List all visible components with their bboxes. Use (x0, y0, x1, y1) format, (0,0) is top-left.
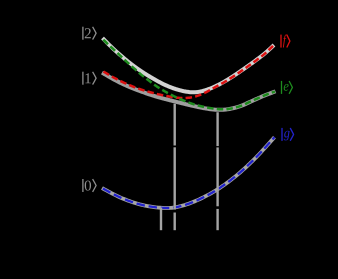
ground-state gray curve (|0〉 to |g〉) (102, 137, 275, 208)
vertical transition line V3 (160, 208, 162, 231)
vertical transition line V2 upper segment (216, 112, 218, 146)
label ket |0> (83, 179, 96, 192)
vertical transition line V1 upper segment (173, 104, 175, 146)
lower adiabatic gray curve (|1〉 to |e〉 branch) (102, 73, 276, 110)
label ket |2> (83, 27, 96, 40)
vertical transition line V2 lower segment (216, 209, 218, 230)
vertical transition line V1 middle segment (173, 147, 175, 209)
label ket |f> (281, 35, 290, 48)
label ket |1> (83, 72, 96, 85)
blue dashed curve |0〉 to |g〉 (102, 137, 275, 208)
green dashed diabatic curve |2〉 to |e〉 (103, 39, 275, 109)
red dashed diabatic curve |1〉 to |f〉 (102, 46, 273, 98)
vertical transition line V2 middle segment (216, 147, 218, 206)
label ket |e> (282, 81, 293, 94)
upper adiabatic gray curve (|2〉 to |f〉 branch) (103, 38, 275, 92)
label ket |g> (282, 128, 294, 141)
vertical transition line V1 lower segment (173, 213, 175, 231)
